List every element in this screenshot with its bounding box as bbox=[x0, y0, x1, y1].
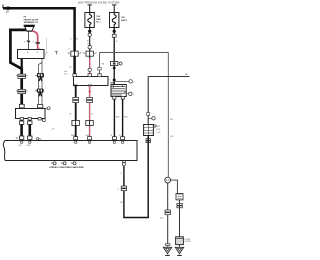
connector tick above ground bbox=[165, 244, 170, 246]
svg-text:R/B: R/B bbox=[110, 82, 114, 84]
speaker S1 label bbox=[24, 17, 39, 24]
connector J3 on thick wire bbox=[16, 89, 28, 93]
junction dot above relay bbox=[113, 79, 116, 82]
small component box bbox=[176, 193, 183, 200]
wire F1 down to B3 bbox=[89, 28, 91, 77]
svg-text:A 5: A 5 bbox=[64, 72, 67, 75]
stub connector circle bbox=[148, 117, 155, 120]
svg-text:2: 2 bbox=[133, 82, 134, 84]
fuse F1 supply tick bbox=[88, 5, 92, 12]
junction dot bbox=[113, 67, 116, 70]
crease line bbox=[46, 38, 48, 54]
wire to rear speakers (dark horizontal) bbox=[148, 73, 189, 77]
connector circle bbox=[88, 33, 91, 36]
wire elbow joining radio pin bbox=[10, 63, 21, 105]
fuse F2 label bbox=[121, 16, 128, 22]
svg-text:15A: 15A bbox=[121, 16, 125, 19]
wire F2 down to relay R bbox=[113, 28, 115, 85]
wire gray horizontal net bbox=[100, 52, 169, 54]
pin tick into band bbox=[74, 137, 78, 140]
svg-text:13: 13 bbox=[36, 52, 38, 54]
wire branch from circle to capacitor bbox=[171, 180, 178, 193]
connector mark bbox=[112, 34, 116, 37]
connector on loop wire bbox=[117, 186, 126, 191]
wire W1 thick from page edge to amplifier box B3 bbox=[3, 5, 75, 77]
svg-text:15A: 15A bbox=[96, 15, 100, 18]
wire B2 to amp pin1 (thick) bbox=[20, 120, 23, 138]
connector J1 on wire W1 bbox=[68, 51, 82, 56]
svg-text:16: 16 bbox=[27, 52, 29, 54]
junction dot bbox=[113, 30, 116, 33]
svg-text:W-L: W-L bbox=[160, 218, 163, 220]
connector pair bbox=[87, 97, 93, 102]
svg-text:18: 18 bbox=[6, 10, 10, 14]
fuse F1 label bbox=[96, 15, 101, 24]
connector circle right of B2 top bbox=[45, 107, 50, 110]
connector circle bbox=[88, 46, 91, 49]
connector pair bbox=[177, 203, 182, 207]
wire B2 to amp pin2 (thick) bbox=[28, 120, 31, 138]
labels above B3 pins bbox=[64, 70, 101, 77]
ground G3 bbox=[163, 247, 171, 255]
wire gray vertical right bbox=[167, 52, 169, 177]
node D stub at amp bbox=[37, 137, 42, 141]
noise filter circle bbox=[165, 177, 171, 183]
B2 bottom pin marks bbox=[20, 118, 41, 120]
wire radio bottom pin bbox=[21, 59, 23, 70]
equalizer B2 bbox=[16, 109, 46, 119]
wire gray down to B3 pin3 bbox=[99, 52, 101, 77]
connector tick bbox=[147, 113, 150, 116]
connector pair below C bbox=[146, 139, 151, 143]
svg-text:W: W bbox=[70, 114, 72, 116]
circle right of block C bbox=[154, 125, 156, 127]
svg-text:A 22: A 22 bbox=[156, 125, 160, 128]
svg-text:W-L: W-L bbox=[170, 136, 173, 138]
connector J5 bbox=[72, 120, 80, 125]
band pin circles (pin numbers) bbox=[20, 141, 123, 143]
connector block C bbox=[144, 125, 154, 136]
relay bottom pin marks bbox=[113, 96, 125, 99]
fuse F2 supply tick bbox=[112, 5, 116, 12]
fuse F2 bbox=[110, 13, 119, 28]
connector rects on B2-amp wires bbox=[16, 121, 32, 139]
pin labels right of radio bbox=[45, 53, 47, 57]
shield connector G2 bbox=[35, 89, 44, 97]
shield connector G1 bbox=[35, 73, 44, 81]
svg-text:1: 1 bbox=[45, 55, 46, 57]
connector circle at B2 bottom right bbox=[42, 119, 45, 122]
pin ticks into band bbox=[112, 137, 124, 140]
wire B3 to amp band (black) bbox=[75, 85, 77, 138]
wire relay to band pin (right) bbox=[122, 99, 124, 138]
svg-text:C 16: C 16 bbox=[156, 132, 160, 134]
stub to connector circle right of F2 wire bbox=[114, 80, 134, 84]
svg-text:SPEAKER LH: SPEAKER LH bbox=[24, 21, 39, 24]
svg-text:RAD: RAD bbox=[96, 18, 101, 21]
band pin labels bbox=[19, 135, 122, 147]
block C labels bbox=[156, 125, 160, 134]
wire speaker left pin to radio top bbox=[24, 31, 30, 49]
svg-text:(W/O PREMIUM SOUND SYSTEM): (W/O PREMIUM SOUND SYSTEM) bbox=[78, 0, 119, 4]
wire labels W-B bbox=[116, 117, 129, 119]
wire red from speaker to radio bbox=[32, 31, 39, 50]
svg-text:W(B): W(B) bbox=[71, 135, 76, 137]
connector circle on red bbox=[88, 68, 91, 71]
relay R bbox=[111, 85, 126, 97]
wire down to connector block C bbox=[147, 77, 149, 125]
tick mark T bbox=[55, 52, 58, 55]
connector J4 on F1 wire bbox=[83, 51, 97, 56]
fuse F1 bbox=[85, 13, 94, 28]
relay right stub circle bbox=[126, 92, 134, 96]
amplifier band box bbox=[3, 141, 137, 161]
svg-text:STEREO COMPONENT AMPLIFIER: STEREO COMPONENT AMPLIFIER bbox=[49, 166, 84, 169]
band bottom pin connector bbox=[122, 161, 125, 166]
svg-text:2: 2 bbox=[39, 86, 40, 88]
svg-text:FILTER: FILTER bbox=[185, 241, 192, 243]
svg-text:1G: 1G bbox=[87, 43, 90, 45]
ground G4 bbox=[175, 247, 183, 255]
connector pair on ground wire bbox=[160, 210, 170, 220]
wire label P bbox=[87, 41, 91, 46]
pin tick into band bbox=[88, 137, 92, 140]
radio B1 bbox=[18, 50, 45, 59]
condenser bbox=[176, 237, 192, 245]
connector J6 bbox=[86, 120, 94, 125]
pin connector into B2 right bbox=[37, 105, 42, 108]
svg-text:1: 1 bbox=[133, 94, 134, 96]
wire from circle down to ground bbox=[167, 183, 169, 247]
amplifier B3 bbox=[74, 77, 109, 86]
svg-text:B 14: B 14 bbox=[156, 129, 160, 131]
inline connector box bbox=[110, 62, 122, 66]
wire relay to band pin (left) bbox=[113, 99, 115, 138]
B3 bottom pin marks bbox=[74, 85, 91, 87]
wire B3 to amp band (red) bbox=[89, 85, 91, 138]
band component caption bbox=[49, 162, 84, 169]
wire speaker to left bus (thick) bbox=[10, 30, 25, 64]
svg-text:R(B): R(B) bbox=[86, 135, 90, 137]
pin connector into B2 left bbox=[19, 104, 24, 108]
red arrow mark bbox=[88, 91, 91, 95]
wire to condenser bbox=[179, 200, 181, 247]
connector J2 on thick wire bbox=[16, 74, 28, 78]
speaker S1 bbox=[24, 25, 35, 32]
wire radio pin2 to B2 (thin pair) bbox=[39, 59, 42, 104]
connector tick on gray drop bbox=[98, 67, 101, 70]
svg-text:W-L: W-L bbox=[170, 119, 173, 121]
connector pair bbox=[73, 97, 79, 102]
junction dot bbox=[88, 30, 91, 33]
svg-text:RAD 2: RAD 2 bbox=[121, 19, 128, 22]
wire C down and loop to band bottom bbox=[124, 136, 148, 218]
